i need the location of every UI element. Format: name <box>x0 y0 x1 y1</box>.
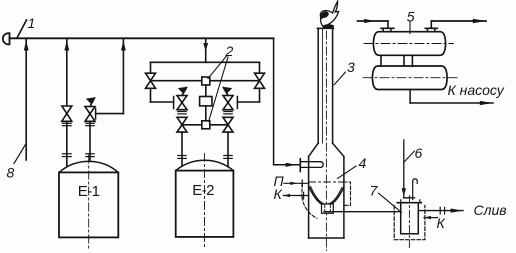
svg-text:6: 6 <box>415 145 423 161</box>
svg-text:8: 8 <box>7 165 15 181</box>
svg-text:2: 2 <box>225 43 234 59</box>
svg-text:1: 1 <box>28 15 36 31</box>
svg-text:К насосу: К насосу <box>448 82 505 98</box>
svg-text:3: 3 <box>347 59 355 75</box>
svg-text:5: 5 <box>407 9 415 25</box>
svg-text:Слив: Слив <box>474 202 507 218</box>
svg-text:К: К <box>274 186 283 202</box>
svg-text:7: 7 <box>370 183 379 199</box>
svg-text:4: 4 <box>359 155 367 171</box>
svg-text:Е-1: Е-1 <box>78 183 100 200</box>
svg-text:Е-2: Е-2 <box>192 182 214 199</box>
svg-text:К: К <box>437 215 446 231</box>
